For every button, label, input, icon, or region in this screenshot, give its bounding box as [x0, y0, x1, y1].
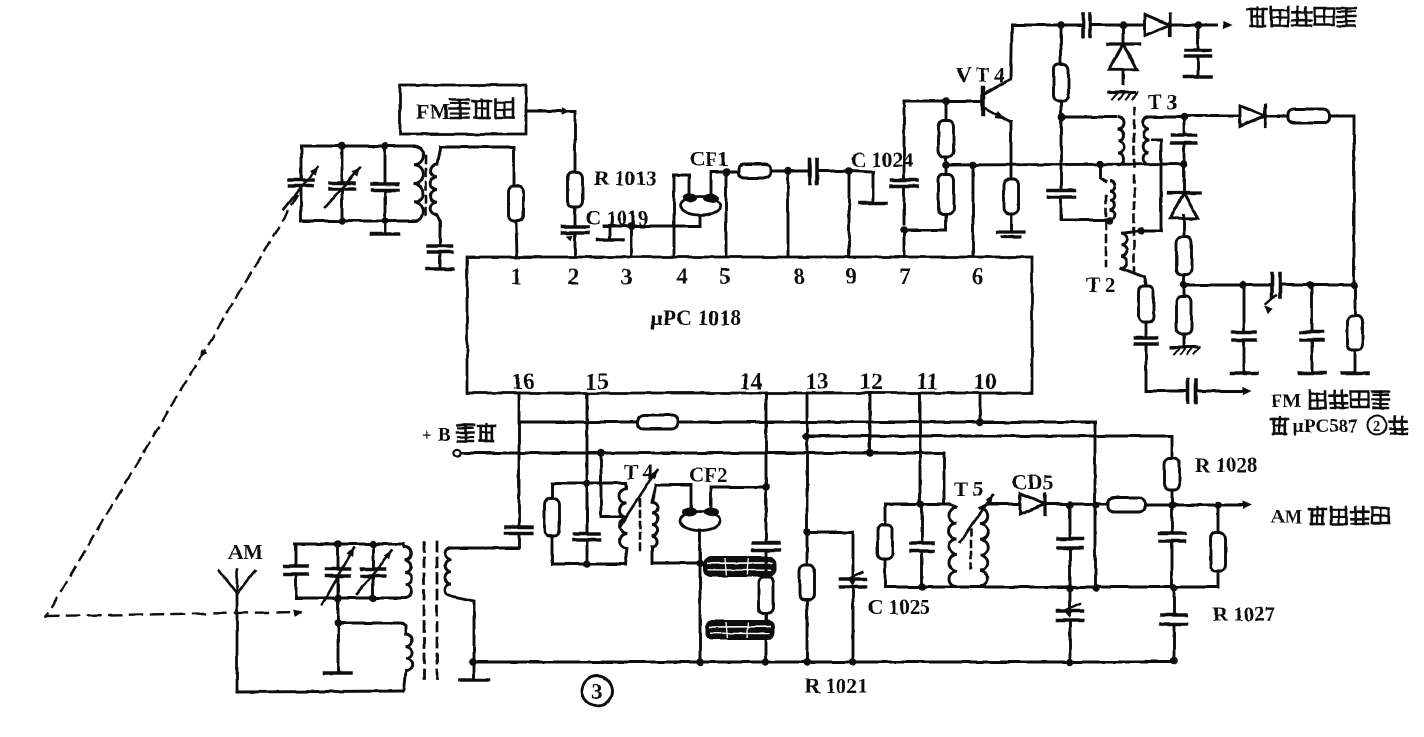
svg-text:CF1: CF1 [690, 147, 729, 171]
wire T5 secondary to CD5 [988, 503, 1020, 506]
wire AGC rail from pin 16 [519, 422, 1095, 588]
ground detector chain [1171, 347, 1200, 354]
wire AM tank top [295, 543, 403, 546]
inductor T3 primary [1118, 117, 1124, 165]
svg-text:T 5: T 5 [954, 477, 983, 501]
svg-text:T 3: T 3 [1148, 90, 1177, 114]
capacitor C1022 on pin 14 column [753, 543, 779, 577]
transistor VT4 [983, 79, 1011, 122]
resistor top right of VT4 [1054, 25, 1069, 117]
FM tank left edge wire [300, 146, 303, 221]
junction dots detector rail [1239, 281, 1358, 289]
junction dot T2 upper [1106, 217, 1114, 225]
svg-text:B: B [438, 425, 451, 446]
wire T4 secondary bottom [652, 547, 700, 563]
inductor AM bar primary [402, 544, 411, 598]
wire AFC corner down [1329, 116, 1354, 285]
label 至μPC587②脚 [1271, 416, 1407, 438]
capacitor detector top [1172, 117, 1196, 164]
FM tuner box (FM调频头) [400, 85, 526, 134]
capacitor series top rail [1083, 14, 1090, 37]
transformer T3 core [1133, 108, 1136, 172]
svg-text:CF2: CF2 [689, 463, 728, 487]
svg-text:AM: AM [228, 540, 263, 564]
svg-text:µPC587: µPC587 [1293, 416, 1358, 437]
svg-text:C 1024: C 1024 [851, 148, 914, 172]
svg-text:2: 2 [567, 264, 579, 289]
svg-text:12: 12 [860, 369, 883, 394]
wire AFC branch diode [1184, 115, 1240, 118]
resistor AFC [1288, 109, 1329, 123]
junction dots top rail [1057, 21, 1202, 29]
resistor shunt 1355 [1348, 285, 1363, 372]
svg-text:µPC 1018: µPC 1018 [650, 305, 742, 330]
svg-text:3: 3 [592, 679, 603, 704]
variable capacitor FM tank 2 [325, 168, 360, 207]
label T3 [1148, 90, 1177, 114]
wire FM tuner output to R1013 [526, 107, 575, 172]
label T4 [624, 460, 654, 484]
wire and ground FM secondary [427, 252, 453, 269]
junction dot detector node [1180, 281, 1188, 289]
capacitor AM det shunt [1058, 505, 1082, 588]
svg-text:R 1027: R 1027 [1213, 602, 1275, 626]
resistor VT4 base divider lower [904, 165, 954, 230]
wire +B supply rail [461, 453, 944, 504]
wire pin 11 column [919, 393, 922, 504]
ground VT4 emitter [998, 232, 1024, 237]
pin numbers bottom [512, 369, 997, 394]
label C1025 [868, 595, 930, 619]
capacitor pin 16 coupling [506, 527, 532, 548]
ground at AM transformer [460, 662, 488, 680]
resistor R1027 [1211, 505, 1226, 587]
wire CF1 output to pin 5 node [711, 172, 738, 257]
wire ground rail [473, 661, 1174, 664]
svg-text:7: 7 [899, 264, 911, 289]
pin numbers top [510, 264, 984, 289]
diode AFC [1240, 106, 1265, 127]
resistor R1020 [759, 577, 774, 663]
wire resistor to pin 1 [516, 221, 517, 257]
capacitor series FM audio out [1188, 380, 1196, 402]
wire AM secondary bottom to ground rail [451, 596, 474, 662]
junction dot CF2 bottom [696, 559, 704, 567]
wire T4 loop bottom [552, 563, 625, 566]
svg-text:13: 13 [806, 369, 829, 394]
inductor T3 secondary [1143, 117, 1149, 164]
wire pin 13 branch to electrolytic [807, 532, 853, 578]
wire to T3 primary top [1061, 116, 1116, 119]
junction dot AGC rail pin10 [976, 418, 984, 426]
resistor R1013 [568, 172, 583, 207]
resistor R1021 on pin 13 column [800, 565, 815, 663]
inductor T4 secondary [652, 502, 658, 547]
junction dot pin13 branch [803, 528, 811, 536]
svg-text:FM: FM [416, 99, 450, 124]
symbol circled 3 [582, 676, 612, 706]
ground 1244 [1231, 371, 1257, 375]
wire pin 15 column [586, 393, 589, 534]
inductor AM secondary [445, 548, 451, 596]
label R1027 [1213, 602, 1275, 626]
wire detector output rail [1184, 284, 1354, 287]
svg-text:T 4: T 4 [624, 460, 654, 484]
capacitor electrolytic 853 [841, 572, 866, 663]
wire pin 9 node to ground [849, 171, 873, 202]
capacitor shunt 1244 [1233, 285, 1255, 372]
svg-text:8: 8 [793, 264, 805, 289]
inductor T5 secondary [980, 504, 988, 586]
svg-text:4: 4 [676, 264, 688, 289]
junction dots T5 loop [917, 500, 926, 591]
resistor T4 tank [545, 483, 560, 564]
wire dashed antenna link diagonal [46, 196, 297, 616]
wire to AM winding 2 [338, 623, 406, 634]
wire CF2 node down to ground rail [699, 563, 702, 663]
resistor detector upper [1177, 215, 1192, 296]
variable capacitor AM 2 [357, 544, 392, 598]
FM input transformer core [425, 156, 428, 220]
resistor after CF1 [738, 164, 771, 178]
inductor FM tank primary winding [414, 146, 423, 221]
wire pin 10 column [979, 393, 982, 422]
wire pin 6 lead [972, 165, 975, 257]
inductor T2 lower winding [1121, 231, 1146, 286]
transformer T5 core [970, 530, 973, 568]
wire CF2 ground stem [699, 530, 702, 563]
label R1028 [1195, 453, 1257, 477]
label C1022 smudged [703, 556, 776, 577]
capacitor AM tank fixed [285, 544, 308, 598]
label AM音频信号 [1271, 507, 1389, 528]
wire T4 secondary top to CF2 [652, 485, 691, 507]
capacitor T2 output chain [1135, 338, 1188, 391]
svg-text:C 1025: C 1025 [868, 595, 930, 619]
wire diode to resistor [1265, 115, 1288, 118]
svg-text:1: 1 [510, 264, 522, 289]
svg-text:R 1021: R 1021 [805, 674, 867, 698]
capacitor below AM out node [1160, 505, 1185, 588]
svg-text:R 1013: R 1013 [594, 166, 656, 190]
wire T5 loop top [885, 503, 949, 506]
ground 1355 [1342, 371, 1368, 375]
svg-text:5: 5 [719, 264, 731, 289]
resistor in AGC rail [638, 415, 678, 429]
inductor FM input secondary winding [431, 164, 437, 215]
capacitor series detector rail [1264, 274, 1280, 315]
variable capacitor AM 1 [322, 544, 354, 605]
label VT4 [956, 63, 1006, 87]
svg-text:+: + [422, 425, 432, 444]
wire CD5 to AM filter [1045, 503, 1108, 506]
resistor T5 tank [878, 504, 893, 587]
resistor VT4 emitter [1004, 179, 1019, 214]
inductor T5 primary [949, 504, 957, 587]
resistor T2 output chain [1139, 286, 1154, 337]
svg-text:V T 4: V T 4 [956, 63, 1006, 87]
wire AM AGC rail from pin 13 [806, 436, 1172, 458]
ground right of pin 9 [860, 201, 886, 205]
wire T5 bottom rail [885, 586, 1218, 589]
wire resistor to pin 8 node [771, 171, 810, 257]
junction dots B rail [597, 449, 874, 457]
wire AM tank to ground [337, 598, 340, 672]
antenna AM [219, 569, 255, 692]
svg-text:2: 2 [1373, 419, 1381, 435]
junction dots AM tank [334, 540, 377, 602]
wire pin 16 column [518, 393, 521, 526]
label AM [228, 540, 263, 564]
label R1020 smudged [705, 620, 775, 640]
svg-text:AM: AM [1271, 507, 1303, 528]
diode shunt below top rail [1107, 25, 1138, 84]
capacitor series pins 8-9 [810, 159, 817, 183]
label R1021 [805, 674, 867, 698]
svg-text:9: 9 [845, 264, 857, 289]
ground below FM tank [372, 221, 399, 234]
wire AM secondary top to pin16 cap [451, 547, 519, 550]
wire top supply rail [1012, 21, 1232, 29]
capacitor electrolytic 1070 [1058, 588, 1083, 662]
wire pin 7 column [903, 101, 906, 257]
inductor T2 upper winding [1100, 164, 1115, 222]
transformer AM bar core [424, 542, 437, 678]
wire VT4 base [904, 100, 982, 103]
junction dot pin13 rail [802, 432, 810, 440]
junction dots IF rail [942, 160, 1188, 169]
capacitor shunt 1312 [1301, 285, 1323, 372]
wire CF2 output to pin 14 [711, 487, 766, 508]
wire T3 tap down to T2 [1141, 140, 1161, 231]
wire VT4 collector riser [1011, 25, 1012, 79]
wire FM audio out [1196, 387, 1252, 395]
svg-text:15: 15 [586, 369, 609, 394]
wire AM audio out [1145, 501, 1252, 509]
junction dots AM out [1168, 501, 1222, 509]
label +B 电源 [422, 424, 495, 446]
capacitor T4 tank [575, 483, 600, 564]
junction dot CF2 pin14 [762, 483, 770, 491]
label CF1 [690, 147, 729, 171]
resistor pin 1 input [509, 186, 524, 221]
IC U1 uPC1018 body [467, 257, 1032, 393]
wire pin 4 riser to CF1 input [674, 175, 689, 257]
wire AM tank bottom [296, 597, 402, 600]
wire series cap to pin 9 node [817, 171, 849, 257]
svg-text:6: 6 [972, 264, 984, 289]
wire pin 3 node to CF1 ground stem [604, 214, 700, 257]
transformer T4 core [639, 500, 642, 553]
label uPC1018 [650, 305, 742, 330]
ceramic filter CF1 [680, 194, 720, 216]
wire IF rail pin6 [946, 164, 1184, 165]
junction dots VT4 [900, 97, 950, 234]
inductor T4 primary [620, 483, 627, 564]
ceramic filter CF2 [680, 508, 720, 531]
svg-text:10: 10 [974, 369, 997, 394]
svg-text:CD5: CD5 [1012, 470, 1053, 494]
label C1024 [851, 148, 914, 172]
label T2 [1086, 273, 1115, 297]
capacitor C1024 [892, 180, 917, 186]
svg-text:11: 11 [916, 369, 938, 394]
svg-text:FM: FM [1271, 391, 1301, 412]
arrow T5 tuning [960, 495, 993, 542]
wire C1019 to pin 2 [574, 233, 577, 257]
label R1013 [594, 166, 656, 190]
wire FM secondary bottom to cap [437, 215, 440, 245]
inductor AM bar winding 2 [403, 634, 412, 691]
svg-text:R 1028: R 1028 [1195, 453, 1257, 477]
wire var cap 2 stems [341, 146, 344, 221]
junction dot T3 out [1058, 113, 1188, 121]
variable capacitor FM tank 1 [284, 167, 318, 209]
resistor VT4 base divider upper [939, 101, 954, 165]
ground below squelch cap [1185, 75, 1211, 79]
node +B supply terminal [453, 449, 460, 456]
wire R1013 to C1019 [574, 207, 577, 226]
FM antenna tank top wire [301, 145, 414, 148]
wire T3 secondary top out [1149, 116, 1184, 119]
wire FM secondary top to pin 1 resistor [437, 147, 514, 186]
ground hatched below diode [1109, 92, 1138, 99]
diode detector [1168, 164, 1199, 218]
svg-text:T 2: T 2 [1086, 273, 1115, 297]
svg-text:3: 3 [621, 264, 633, 289]
label CD5 [1012, 470, 1053, 494]
capacitor below resistor 1061 [1048, 117, 1110, 220]
capacitor 1174 lower [1162, 588, 1187, 661]
capacitor C1025 tank [911, 504, 933, 587]
junction dots T4 loop [583, 479, 591, 568]
wire pin 12 column [869, 393, 872, 453]
label CF2 [689, 463, 728, 487]
wire T4 loop top [552, 482, 625, 485]
resistor detector lower [1177, 296, 1192, 346]
resistor AM series [1108, 498, 1145, 512]
ground AM tank [325, 671, 352, 675]
ground 1312 [1299, 371, 1325, 375]
wire VT4 emitter column [1010, 122, 1013, 179]
capacitor FM secondary bypass [428, 246, 452, 252]
junction dots FM tank [338, 142, 389, 225]
wire AM bottom return [237, 691, 403, 692]
wire pin 13 column [806, 393, 809, 565]
transformer T2 cores [1106, 176, 1134, 272]
wire fixed cap stems [384, 146, 387, 221]
label 至静噪电路 squelch output [1248, 7, 1356, 26]
resistor R1028 [1165, 458, 1180, 505]
junction dot AM lower [334, 619, 342, 627]
label T5 [954, 477, 983, 501]
arrow T4 tuning [620, 470, 657, 527]
wire dashed antenna link horizontal [46, 609, 302, 616]
junction dots lower rail [1066, 584, 1178, 592]
FM antenna tank bottom wire [301, 220, 414, 223]
junction dots AM det [1066, 501, 1100, 509]
junction dot T2 lower [1137, 227, 1145, 235]
wire emitter resistor to ground [1010, 214, 1013, 230]
svg-text:16: 16 [512, 369, 535, 394]
capacitor FM tank fixed [372, 184, 398, 190]
diode top rail to squelch [1145, 15, 1170, 36]
wire B feed to T4 tap [601, 453, 623, 517]
ground near pin 3 [598, 226, 623, 240]
wire pin 14 column [765, 393, 768, 542]
label C1019 [586, 206, 648, 230]
capacitor C1019 [562, 227, 588, 241]
junction dots top network [627, 167, 853, 230]
label FM音频信号 [1271, 391, 1389, 412]
svg-text:14: 14 [740, 369, 764, 394]
diode CD5 [1020, 494, 1045, 515]
capacitor squelch output filter [1186, 25, 1211, 76]
junction dots ground rail [469, 657, 1178, 666]
